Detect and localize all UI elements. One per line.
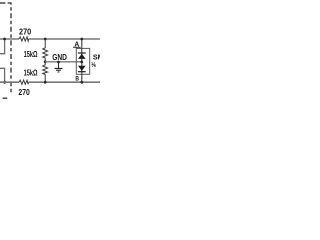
svg-text:SMD: SMD <box>93 53 100 62</box>
junction dot stub-A <box>3 38 6 41</box>
junction dot TVS-A <box>80 38 83 41</box>
ground symbol <box>55 62 63 72</box>
svg-text:GND: GND <box>52 52 67 62</box>
connector dashed outline (bottom dash) <box>3 97 8 99</box>
junction dot stub-B <box>3 81 6 84</box>
TVS box U1 <box>76 48 89 74</box>
svg-text:15kΩ: 15kΩ <box>24 67 38 77</box>
svg-text:⅙: ⅙ <box>91 61 96 69</box>
svg-text:B: B <box>75 75 79 82</box>
svg-text:270: 270 <box>18 87 30 97</box>
label A underline <box>73 46 80 48</box>
svg-text:270: 270 <box>19 27 31 37</box>
resistor R4 15k (vertical, lower) <box>43 62 48 82</box>
junction dot GND tap <box>57 61 60 64</box>
connector dashed outline (top edge + right edge) <box>0 2 6 4</box>
wire bias midpoint to TVS common <box>45 61 82 63</box>
TVS vertical through-line <box>81 39 83 82</box>
svg-text:15kΩ: 15kΩ <box>24 49 38 59</box>
diode D2 (lower TVS, cathode bar down) <box>78 66 86 71</box>
junction dot R3/R4 midpoint <box>44 60 47 63</box>
junction dot R3 top <box>44 38 47 41</box>
connector stub top <box>0 39 5 54</box>
connector stub bottom <box>0 68 5 82</box>
junction dot TVS common <box>80 61 83 64</box>
junction dot R4 bottom <box>44 81 47 84</box>
junction dot TVS-B <box>80 81 83 84</box>
diode D1 (upper TVS, cathode bar up) <box>78 52 86 54</box>
wire A (top bus line) <box>0 38 19 40</box>
resistor R2 270 (series, bottom line) <box>19 80 28 84</box>
resistor R1 270 (series, top line) <box>19 37 29 41</box>
wire B (bottom bus line) <box>0 81 19 83</box>
resistor R3 15k (vertical, upper) <box>43 39 48 62</box>
